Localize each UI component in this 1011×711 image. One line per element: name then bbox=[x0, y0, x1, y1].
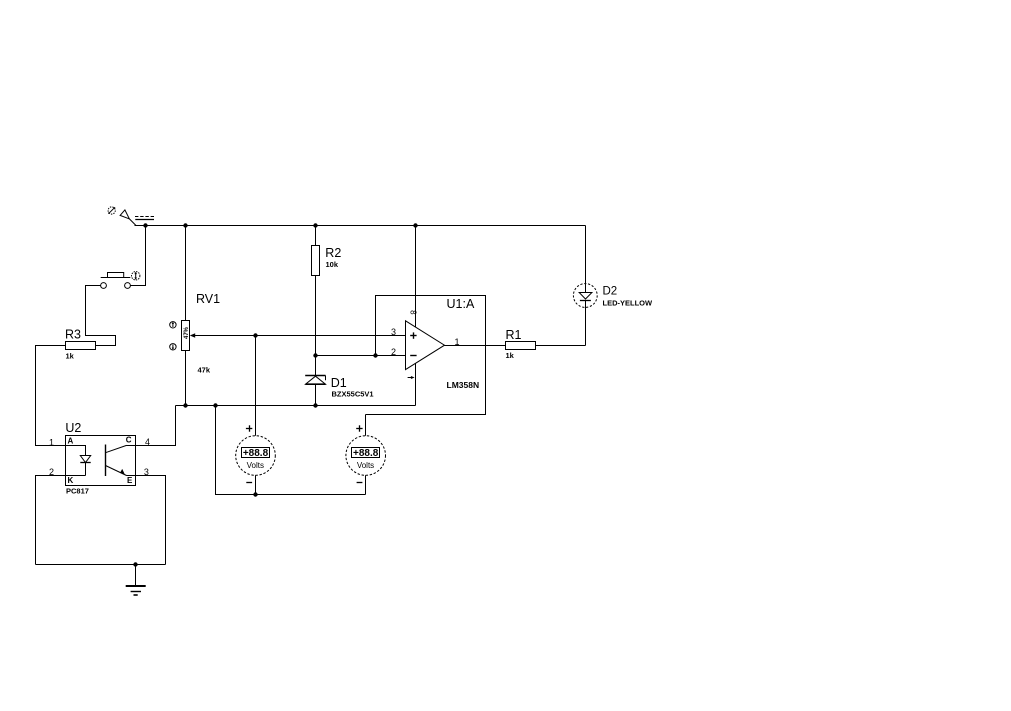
svg-text:2: 2 bbox=[391, 347, 396, 357]
resistor R3 bbox=[66, 342, 96, 350]
wire U2 pin 4 (C) up to mid rail bbox=[127, 406, 176, 446]
U2 internal LED bbox=[66, 446, 91, 476]
svg-text:1k: 1k bbox=[66, 351, 75, 360]
svg-text:RV1: RV1 bbox=[196, 292, 220, 306]
op-amp U1:A triangle bbox=[406, 321, 445, 370]
svg-text:10k: 10k bbox=[326, 260, 339, 269]
optocoupler U2 body bbox=[66, 436, 136, 486]
svg-text:C: C bbox=[126, 436, 132, 445]
push button SW1 bbox=[101, 273, 131, 289]
resistor R1 bbox=[506, 342, 536, 350]
node junction ground tap bbox=[133, 562, 137, 566]
node junction mid rail/D1 bbox=[313, 403, 317, 407]
svg-text:4: 4 bbox=[145, 437, 150, 447]
svg-text:+88.8: +88.8 bbox=[243, 448, 269, 459]
resistor R2 bbox=[312, 246, 320, 276]
wire RV1 bottom to mid rail bbox=[185, 351, 187, 406]
svg-text:R3: R3 bbox=[65, 327, 81, 341]
svg-text:8: 8 bbox=[409, 310, 418, 315]
node junction rail/button bbox=[143, 223, 147, 227]
node junction pin2 net / zener bbox=[313, 353, 317, 357]
light source actuator circle bbox=[108, 207, 115, 214]
RV1 actuator down bbox=[170, 344, 176, 350]
op-amp plus symbol bbox=[410, 332, 416, 338]
op-amp pin4 arrow bbox=[408, 376, 415, 379]
wire U2 pin 2 (K) to ground rail bbox=[36, 476, 86, 565]
push button actuator bbox=[132, 272, 140, 280]
wire R1 to LED branch bbox=[536, 345, 586, 347]
svg-text:R2: R2 bbox=[325, 246, 341, 260]
voltmeter VM1 bbox=[236, 336, 276, 495]
node junction rail/RV1 bbox=[183, 223, 187, 227]
node junction rail/opamp V+ bbox=[413, 223, 417, 227]
svg-text:D2: D2 bbox=[603, 285, 618, 297]
wire op-amp output to R1 bbox=[445, 345, 506, 347]
wire rail to R2 top bbox=[315, 226, 317, 246]
voltmeter VM2 bbox=[346, 415, 386, 495]
svg-text:R1: R1 bbox=[506, 328, 522, 342]
svg-text:Volts: Volts bbox=[357, 461, 374, 470]
ground symbol bbox=[126, 565, 146, 596]
potentiometer RV1 body bbox=[182, 321, 190, 351]
wire button to R3 bbox=[86, 286, 116, 346]
svg-text:2: 2 bbox=[49, 467, 54, 477]
zener diode D1 bbox=[305, 376, 325, 385]
svg-text:+88.8: +88.8 bbox=[353, 448, 379, 459]
svg-text:U1:A: U1:A bbox=[447, 297, 475, 311]
wire rail down to LED D2 bbox=[585, 226, 587, 293]
wire R3 left lead down to U2 pin 1 bbox=[36, 346, 66, 446]
svg-text:K: K bbox=[68, 476, 74, 485]
wire pin2 reference net bbox=[316, 355, 406, 357]
op-amp V- supply wire bbox=[415, 364, 417, 406]
op-amp V+ supply wire bbox=[415, 226, 417, 328]
svg-text:47k: 47k bbox=[198, 365, 211, 374]
svg-text:LM358N: LM358N bbox=[447, 380, 480, 390]
wire from light source to rail bbox=[129, 219, 136, 226]
wire LED to R1 bbox=[585, 301, 587, 346]
svg-text:1: 1 bbox=[455, 337, 460, 347]
wire R2 bottom to zener D1 bbox=[315, 276, 317, 376]
svg-text:PC817: PC817 bbox=[66, 486, 89, 495]
wire mid rail bbox=[176, 405, 416, 407]
wire rail to RV1 top bbox=[185, 226, 187, 321]
node junction mid rail/RV1 bbox=[183, 403, 187, 407]
node junction rail/R2 bbox=[313, 223, 317, 227]
RV1 actuator up bbox=[170, 322, 176, 328]
U2 phototransistor bbox=[106, 445, 127, 477]
RV1 wiper arrow and wire to op-amp pin 3 bbox=[190, 333, 406, 337]
svg-text:47%: 47% bbox=[184, 326, 190, 339]
light source rays bbox=[135, 217, 154, 220]
light source cone bbox=[120, 210, 129, 219]
wire bottom ground rail bbox=[36, 564, 166, 566]
svg-text:1k: 1k bbox=[506, 351, 515, 360]
svg-text:U2: U2 bbox=[65, 421, 81, 435]
svg-text:LED-YELLOW: LED-YELLOW bbox=[603, 299, 653, 308]
node junction wiper/voltmeter1 bbox=[253, 333, 257, 337]
wire rail to push button bbox=[131, 226, 146, 286]
wire voltmeter bottom return bbox=[216, 406, 366, 495]
svg-text:Volts: Volts bbox=[247, 461, 264, 470]
svg-text:3: 3 bbox=[144, 467, 149, 477]
node junction voltmeter1 minus bbox=[253, 492, 257, 496]
wire U2 pin 3 (E) down to ground rail bbox=[127, 476, 166, 565]
svg-text:E: E bbox=[127, 476, 133, 485]
node junction mid rail/voltmeter bottom bbox=[213, 403, 217, 407]
LED D2 bbox=[573, 284, 597, 308]
svg-text:1: 1 bbox=[49, 438, 54, 448]
svg-text:BZX55C5V1: BZX55C5V1 bbox=[332, 390, 374, 399]
wire D1 anode to mid rail bbox=[315, 384, 317, 405]
svg-text:D1: D1 bbox=[331, 376, 347, 390]
wire feedback loop to voltmeter2 bbox=[366, 296, 486, 415]
node junction pin2/feedback bbox=[373, 353, 377, 357]
wire top supply rail bbox=[135, 225, 586, 227]
svg-text:3: 3 bbox=[391, 327, 396, 337]
svg-text:A: A bbox=[68, 436, 74, 445]
op-amp minus symbol bbox=[410, 355, 416, 357]
